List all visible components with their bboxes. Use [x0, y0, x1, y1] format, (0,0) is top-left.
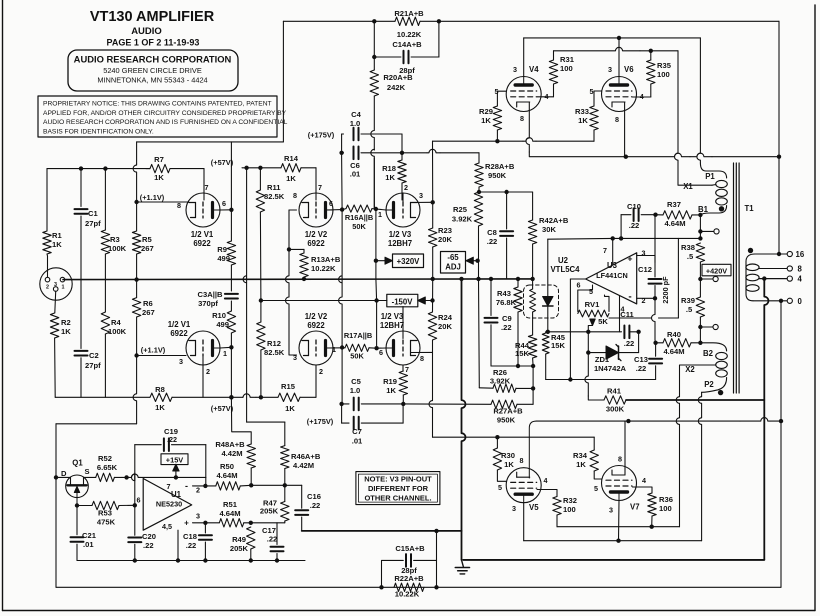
- node junction R21 left: [372, 19, 376, 23]
- wire RV1 wiper line C11: [548, 331, 622, 333]
- resistor R15: [278, 393, 300, 401]
- node R23 bus: [431, 277, 435, 281]
- wire +1.1V down to U1 enclosure: [133, 356, 136, 424]
- svg-text:1K: 1K: [578, 116, 588, 125]
- wire y318 link: [609, 317, 652, 319]
- wire coupling column x342: [339, 210, 342, 283]
- svg-text:R19: R19: [383, 377, 397, 386]
- svg-text:27pf: 27pf: [85, 219, 101, 228]
- node 320V arrow: [374, 259, 378, 263]
- wire C19 left drop to pin6: [132, 445, 135, 481]
- svg-text:R46A+B: R46A+B: [291, 452, 321, 461]
- svg-text:R53: R53: [98, 509, 112, 518]
- capacitor C20: [134, 505, 136, 535]
- svg-text:.22: .22: [267, 535, 278, 544]
- svg-text:2200 pF: 2200 pF: [661, 276, 670, 304]
- svg-text:6.65K: 6.65K: [97, 463, 118, 472]
- wire V1b plate: [220, 346, 231, 349]
- svg-text:6: 6: [222, 199, 226, 208]
- svg-text:(+175V): (+175V): [308, 131, 335, 140]
- svg-text:4,5: 4,5: [162, 522, 172, 531]
- op-amp U1: [143, 479, 192, 531]
- svg-text:1/2 V1: 1/2 V1: [168, 320, 191, 329]
- node R13 bus: [302, 277, 306, 281]
- svg-text:PROPRIETARY NOTICE: THIS DRAW: PROPRIETARY NOTICE: THIS DRAWING CONTAIN…: [43, 101, 272, 108]
- svg-text:4: 4: [544, 476, 548, 485]
- resistor R41: [585, 353, 588, 396]
- resistor R30: [495, 435, 499, 439]
- node R52 right: [124, 475, 128, 479]
- svg-text:R43: R43: [497, 289, 511, 298]
- svg-text:P2: P2: [704, 380, 714, 389]
- svg-text:C14A+B: C14A+B: [392, 40, 422, 49]
- svg-text:R49: R49: [232, 535, 246, 544]
- capacitor C14A+B: [373, 21, 375, 57]
- svg-text:MINNETONKA, MN 55343 - 4424: MINNETONKA, MN 55343 - 4424: [97, 76, 207, 85]
- company box: [68, 50, 238, 91]
- svg-text:8: 8: [615, 115, 619, 124]
- svg-text:3: 3: [513, 65, 517, 74]
- svg-text:6: 6: [329, 199, 333, 208]
- svg-text:5240 GREEN CIRCLE DRIVE: 5240 GREEN CIRCLE DRIVE: [103, 66, 202, 75]
- svg-text:C9: C9: [502, 314, 512, 323]
- svg-text:20K: 20K: [438, 235, 452, 244]
- wire U1 pin3 line: [193, 522, 206, 524]
- wire V7 plate down: [618, 501, 621, 541]
- wire U1 pin2 line: [193, 485, 206, 487]
- node R35 top: [649, 49, 653, 53]
- wire V5 cathode rise: [529, 421, 536, 478]
- cathode feedback bus y156.7: [626, 153, 690, 156]
- capacitor C4: [342, 133, 344, 135]
- wire V5 plate down: [523, 503, 525, 541]
- svg-text:499: 499: [216, 320, 229, 329]
- svg-text:82.5K: 82.5K: [264, 192, 285, 201]
- node C8 top: [504, 190, 508, 194]
- U2 photoresistor: [532, 279, 534, 289]
- wire pin2 to R1: [47, 256, 49, 277]
- svg-text:R21A+B: R21A+B: [394, 9, 424, 18]
- wire V6 plate up: [618, 38, 620, 77]
- resistor R31: [549, 60, 557, 84]
- node R40 line: [653, 341, 657, 345]
- resistor R53: [77, 505, 92, 507]
- wire pin1 to bus: [65, 279, 72, 281]
- node coupling C4 C6: [340, 207, 344, 211]
- B plus column R38 R39: [699, 215, 701, 239]
- svg-text:R50: R50: [220, 462, 234, 471]
- svg-text:15K: 15K: [515, 349, 529, 358]
- svg-text:1K: 1K: [504, 460, 514, 469]
- input connector J1: [40, 268, 72, 300]
- node C9 bus: [489, 277, 493, 281]
- wire U3 pin1 to RV1: [605, 295, 610, 312]
- node R13 junction: [287, 247, 291, 251]
- resistor R29: [493, 106, 501, 130]
- svg-text:8: 8: [177, 201, 181, 210]
- svg-text:LF441CN: LF441CN: [596, 271, 628, 280]
- svg-text:7: 7: [205, 183, 209, 192]
- node R40 junction: [698, 341, 702, 345]
- potentiometer RV1: [578, 310, 609, 317]
- capacitor C9: [490, 279, 492, 316]
- node Q1 drain: [54, 475, 58, 479]
- node pin6: [133, 503, 137, 507]
- svg-text:499: 499: [217, 254, 230, 263]
- node R42 bus end: [530, 277, 534, 281]
- node R9 line bottom: [229, 395, 233, 399]
- transformer core: [733, 163, 735, 393]
- svg-text:T1: T1: [744, 204, 754, 213]
- svg-text:.22: .22: [624, 339, 635, 348]
- svg-text:.22: .22: [629, 221, 640, 230]
- svg-text:+320V: +320V: [397, 257, 421, 266]
- svg-text:Q1: Q1: [72, 459, 83, 468]
- node P2 phasing dot: [718, 390, 723, 395]
- svg-text:S: S: [85, 467, 90, 476]
- resistor R16A||B: [346, 205, 372, 212]
- node R36 bottom: [650, 525, 654, 529]
- svg-text:RV1: RV1: [585, 300, 600, 309]
- wire V4 plate to top node: [523, 38, 525, 77]
- svg-text:V7: V7: [630, 503, 640, 512]
- resistor R32: [553, 497, 561, 516]
- resistor R28A+B: [475, 163, 483, 187]
- node B1 phasing dot: [719, 206, 724, 211]
- resistor R24: [432, 279, 434, 312]
- svg-text:C7: C7: [352, 427, 362, 436]
- node R38 top: [698, 236, 702, 240]
- resistor R48A+B: [247, 444, 255, 468]
- wire cathode return y421: [536, 420, 740, 422]
- resistor R27A+B: [403, 403, 491, 405]
- node R49 top: [249, 521, 253, 525]
- svg-text:.22: .22: [487, 237, 498, 246]
- svg-text:1K: 1K: [154, 173, 164, 182]
- svg-text:10.22K: 10.22K: [311, 264, 336, 273]
- capacitor C8: [506, 192, 508, 229]
- resistor R18: [401, 153, 403, 160]
- tube V2b: [299, 331, 333, 365]
- wire V3b cathode to R19: [402, 365, 404, 371]
- node pin7 supply: [174, 475, 178, 479]
- svg-text:7: 7: [603, 246, 607, 255]
- border frame: [2, 0, 4, 611]
- svg-text:R13A+B: R13A+B: [311, 255, 341, 264]
- wire output thick line: [302, 530, 462, 532]
- node feedback bus right: [777, 155, 781, 159]
- resistor R5: [136, 202, 138, 231]
- wire X2 tap: [680, 365, 716, 394]
- svg-text:82.5K: 82.5K: [264, 348, 285, 357]
- svg-text:205K: 205K: [260, 507, 279, 516]
- svg-text:APPLIED FOR, AND/OR OTHER CIRC: APPLIED FOR, AND/OR OTHER CIRCUITRY CONS…: [43, 110, 287, 117]
- svg-text:-150V: -150V: [392, 297, 414, 306]
- node C5 right: [401, 402, 405, 406]
- node pin3: [203, 521, 207, 525]
- svg-text:C1: C1: [88, 209, 98, 218]
- capacitor C15A+B: [382, 560, 404, 587]
- resistor R22A+B: [394, 583, 424, 591]
- svg-text:1.0: 1.0: [350, 386, 361, 395]
- resistor R3: [104, 169, 106, 230]
- svg-text:C3A||B: C3A||B: [198, 290, 223, 299]
- node C10 bottom: [619, 236, 623, 240]
- node -150V line start: [259, 298, 263, 302]
- svg-text:R7: R7: [154, 155, 164, 164]
- svg-text:R1: R1: [52, 231, 62, 240]
- svg-text:3.92K: 3.92K: [452, 215, 473, 224]
- svg-text:R37: R37: [667, 200, 681, 209]
- wire V2a plate to coupling node: [326, 209, 343, 211]
- svg-text:100: 100: [560, 64, 573, 73]
- wire X1 drop: [675, 51, 679, 181]
- svg-text:2: 2: [196, 486, 200, 495]
- svg-text:8: 8: [520, 114, 524, 123]
- wire U3 pin2 lead: [637, 297, 655, 299]
- node V3a cathode: [431, 200, 435, 204]
- wire C4 to R18 column: [401, 134, 403, 152]
- wire screen line to X2: [557, 526, 680, 528]
- svg-text:R14: R14: [284, 154, 299, 163]
- -65 ADJ box with arrow: [441, 252, 466, 274]
- hop over x246.6: [243, 394, 256, 397]
- svg-text:1.0: 1.0: [350, 119, 361, 128]
- wire A to V3a cathode: [432, 141, 434, 202]
- tube V4: [506, 77, 541, 112]
- wire 57V top rail: [137, 141, 284, 143]
- svg-text:C21: C21: [82, 531, 97, 540]
- svg-text:4.64M: 4.64M: [664, 219, 685, 228]
- svg-text:1K: 1K: [386, 386, 396, 395]
- svg-text:-65: -65: [447, 253, 459, 262]
- svg-text:6922: 6922: [307, 321, 325, 330]
- svg-text:2: 2: [404, 183, 408, 192]
- resistor R45: [545, 332, 547, 333]
- svg-text:4.64M: 4.64M: [216, 471, 237, 480]
- svg-text:R9: R9: [217, 245, 227, 254]
- resistor R44: [528, 335, 536, 358]
- capacitor C2: [80, 280, 82, 349]
- wire V3b grid to -150V box: [402, 307, 404, 339]
- wire cathode line A: [433, 140, 524, 142]
- node V6 cathode bus: [624, 155, 628, 159]
- svg-text:.22: .22: [186, 541, 197, 550]
- node V3b plate junction: [374, 346, 378, 350]
- svg-text:12BH7: 12BH7: [380, 321, 404, 330]
- resistor R21A+B: [395, 17, 420, 25]
- wire V6 cathode to bus: [624, 102, 626, 157]
- wire servo bottom line: [546, 379, 656, 381]
- svg-text:242K: 242K: [387, 83, 406, 92]
- svg-text:C15A+B: C15A+B: [395, 544, 425, 553]
- resistor R40: [663, 339, 691, 347]
- svg-text:R12: R12: [267, 339, 281, 348]
- capacitor C5: [342, 403, 349, 405]
- svg-text:1: 1: [332, 345, 336, 354]
- node R44 C9 R43 junction: [531, 364, 535, 368]
- svg-text:6922: 6922: [193, 239, 211, 248]
- wire V3b plate wire: [377, 347, 386, 349]
- svg-text:R6: R6: [143, 299, 153, 308]
- capacitor C6: [342, 152, 344, 154]
- node V2b plate line cross: [340, 345, 344, 349]
- svg-text:5K: 5K: [598, 317, 608, 326]
- node bus thick: [459, 277, 463, 281]
- svg-text:10.22K: 10.22K: [395, 590, 420, 599]
- resistor R13A+B: [289, 248, 304, 250]
- svg-text:20K: 20K: [438, 322, 452, 331]
- svg-text:3: 3: [419, 191, 423, 200]
- svg-text:.22: .22: [310, 501, 321, 510]
- svg-text:.01: .01: [352, 437, 363, 446]
- +420V box: [702, 264, 731, 276]
- svg-text:.22: .22: [143, 541, 154, 550]
- svg-text:+: +: [628, 254, 633, 264]
- node zero tap corner: [779, 419, 783, 423]
- svg-text:R28A+B: R28A+B: [485, 162, 515, 171]
- node R18 top: [400, 151, 404, 155]
- node R26 junction: [531, 386, 535, 390]
- svg-text:5: 5: [498, 483, 502, 492]
- capacitor C12 column: [654, 262, 656, 277]
- node R46 feed: [244, 166, 248, 170]
- tube V1a: [186, 193, 220, 227]
- wire rail y152.8 to R28: [404, 152, 427, 154]
- wire V3b pin8 to R24 column: [411, 351, 433, 353]
- svg-text:12BH7: 12BH7: [388, 239, 412, 248]
- node R39 test: [698, 325, 702, 329]
- svg-text:R33: R33: [575, 107, 589, 116]
- node pin2: [203, 484, 207, 488]
- svg-text:100: 100: [563, 505, 576, 514]
- svg-text:6: 6: [137, 496, 141, 505]
- wire R47 column: [281, 502, 289, 522]
- node R8 right +57 tap: [229, 395, 233, 399]
- svg-text:R4: R4: [111, 318, 121, 327]
- resistor R43: [516, 277, 520, 281]
- wire P2 drop to plates: [701, 392, 703, 396]
- svg-text:R41: R41: [607, 387, 622, 396]
- main input bus y=279.6: [63, 278, 533, 281]
- svg-text:C2: C2: [89, 351, 99, 360]
- svg-text:.5: .5: [687, 252, 694, 261]
- capacitor C7: [341, 404, 343, 423]
- wire V3a plate column below bus: [375, 279, 378, 301]
- svg-text:267: 267: [141, 244, 154, 253]
- svg-text:1/2 V2: 1/2 V2: [305, 312, 328, 321]
- proprietary notice box: [38, 96, 277, 137]
- svg-text:R40: R40: [667, 330, 681, 339]
- node R48 R46 bottom: [249, 483, 253, 487]
- svg-text:1K: 1K: [385, 173, 395, 182]
- svg-text:8: 8: [618, 455, 622, 464]
- svg-text:1K: 1K: [155, 403, 165, 412]
- svg-text:B1: B1: [698, 205, 709, 214]
- node R11 top: [258, 166, 262, 170]
- capacitor C3A||B: [230, 265, 232, 291]
- svg-text:3: 3: [609, 506, 613, 515]
- svg-text:+: +: [184, 519, 189, 528]
- svg-text:R29: R29: [479, 107, 493, 116]
- tube V5: [506, 468, 541, 503]
- wire R20 to V3a plate node with hops over C4 C6: [371, 96, 375, 150]
- wire U3 pin3 lead: [637, 255, 655, 257]
- svg-text:B2: B2: [703, 349, 714, 358]
- capacitor C11: [623, 326, 625, 339]
- svg-text:6922: 6922: [170, 329, 188, 338]
- svg-text:R3: R3: [110, 235, 120, 244]
- svg-text:1K: 1K: [52, 240, 62, 249]
- svg-text:205K: 205K: [230, 544, 249, 553]
- svg-text:1K: 1K: [576, 460, 586, 469]
- svg-text:950K: 950K: [497, 416, 516, 425]
- wire thick vertical to bus: [462, 279, 466, 531]
- node V1a plate: [229, 208, 233, 212]
- resistor R51: [205, 522, 219, 524]
- capacitor C1: [80, 169, 82, 207]
- svg-text:.22: .22: [167, 435, 177, 444]
- svg-text:475K: 475K: [97, 518, 116, 527]
- capacitor C18: [204, 523, 206, 533]
- terminal 4: [759, 278, 787, 280]
- node 16 feedback junction: [777, 252, 781, 256]
- capacitor C10: [620, 215, 622, 239]
- wire C19 right drop to pin2: [205, 445, 207, 478]
- node C11 right: [636, 330, 640, 334]
- svg-text:ZD1: ZD1: [595, 355, 610, 364]
- wire U3 pin4 lead: [619, 296, 621, 332]
- svg-text:R52: R52: [98, 454, 112, 463]
- wire V3a cathode to R23: [411, 201, 433, 203]
- svg-text:1/2 V3: 1/2 V3: [389, 230, 412, 239]
- svg-text:(+57V): (+57V): [211, 158, 234, 167]
- resistor R38: [696, 243, 704, 262]
- svg-text:AUDIO RESEARCH CORPORATION: AUDIO RESEARCH CORPORATION: [74, 54, 232, 65]
- +320V box with arrow: [376, 260, 386, 262]
- resistor R1: [46, 169, 48, 231]
- svg-text:10.22K: 10.22K: [397, 30, 422, 39]
- svg-text:VTL5C4: VTL5C4: [550, 265, 580, 274]
- svg-text:7: 7: [167, 482, 171, 491]
- wire V2b grid drop: [315, 365, 317, 397]
- wire R24 to bias line: [429, 340, 432, 433]
- svg-text:50K: 50K: [352, 222, 366, 231]
- wire R28 node to C8 R42: [479, 191, 533, 193]
- node V7 plate: [616, 539, 620, 543]
- wire V3a plate wire: [376, 209, 386, 210]
- svg-text:C20: C20: [142, 532, 156, 541]
- wire +57 to R48: [231, 397, 251, 444]
- node bus tap R5 R6: [134, 277, 138, 281]
- wire feedback drop to +57 rail: [282, 21, 284, 142]
- wire R9 column to R15 line: [230, 347, 232, 397]
- svg-text:U1: U1: [171, 490, 182, 499]
- svg-text:X2: X2: [685, 365, 695, 374]
- resistor R46A+B: [281, 446, 289, 469]
- +15V box and arrow: [161, 454, 188, 465]
- wire R22 tap to output line: [436, 531, 438, 561]
- node C1 top: [79, 166, 83, 170]
- node V1b plate: [229, 345, 233, 349]
- svg-text:D: D: [61, 469, 67, 478]
- resistor R34: [593, 437, 595, 450]
- svg-text:C12: C12: [638, 265, 652, 274]
- svg-text:1K: 1K: [285, 404, 295, 413]
- wire V3a plate node to 320V tap: [375, 209, 377, 279]
- wire V2a cathode to R13 node: [289, 209, 297, 211]
- resistor R14: [281, 164, 301, 172]
